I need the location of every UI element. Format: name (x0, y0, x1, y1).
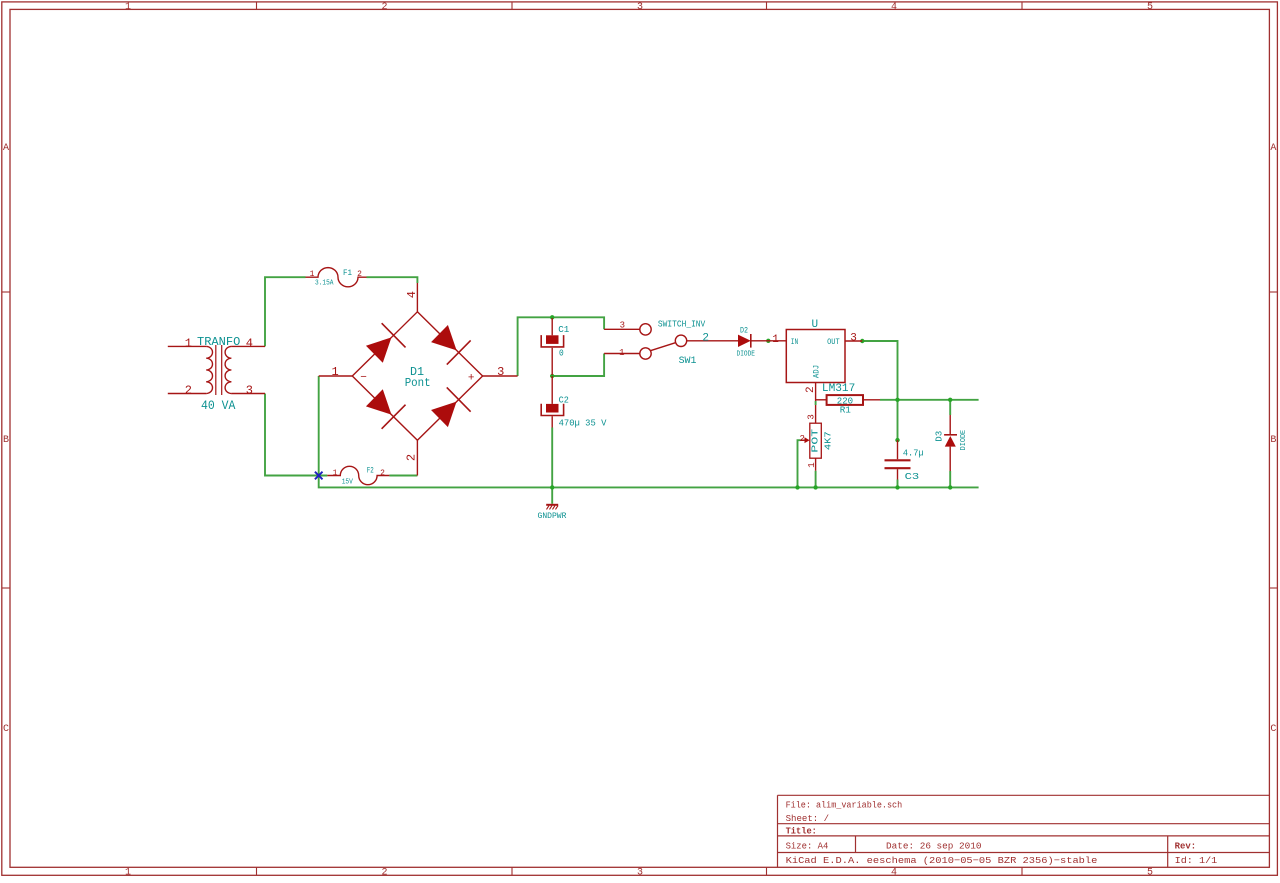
svg-text:C1: C1 (558, 324, 569, 335)
svg-text:3: 3 (637, 2, 643, 13)
svg-text:2: 2 (357, 270, 362, 279)
svg-text:1: 1 (185, 336, 192, 350)
svg-text:2: 2 (381, 2, 387, 13)
svg-text:+: + (468, 373, 475, 385)
svg-text:1: 1 (125, 2, 131, 13)
svg-text:A: A (1270, 143, 1276, 154)
svg-text:B: B (3, 435, 9, 446)
svg-text:C: C (3, 724, 9, 735)
svg-text:2: 2 (380, 469, 385, 478)
svg-text:5: 5 (1147, 2, 1153, 13)
svg-text:0: 0 (559, 348, 564, 359)
svg-text:TRANFO: TRANFO (197, 335, 240, 349)
svg-text:POT: POT (809, 428, 820, 452)
svg-text:4K7: 4K7 (822, 431, 833, 450)
svg-text:Id: 1/1: Id: 1/1 (1175, 855, 1218, 866)
svg-text:3: 3 (807, 414, 817, 419)
svg-text:LM317: LM317 (822, 383, 855, 395)
svg-text:IN: IN (791, 337, 798, 347)
svg-text:5: 5 (1147, 868, 1153, 878)
svg-text:4: 4 (246, 336, 253, 350)
svg-text:3: 3 (497, 365, 504, 379)
svg-text:SWITCH_INV: SWITCH_INV (658, 319, 706, 330)
svg-text:D3: D3 (935, 431, 945, 442)
svg-text:4: 4 (891, 2, 897, 13)
svg-text:Date: 26 sep 2010: Date: 26 sep 2010 (886, 841, 982, 852)
svg-text:1: 1 (772, 334, 779, 346)
svg-text:A: A (3, 143, 9, 154)
svg-text:1: 1 (333, 469, 338, 478)
svg-text:KiCad E.D.A. eeschema (2010−0: KiCad E.D.A. eeschema (2010−05−05 BZR 23… (786, 855, 1098, 866)
svg-text:470µ 35 V: 470µ 35 V (559, 417, 607, 428)
svg-text:4: 4 (405, 291, 419, 298)
svg-text:DIODE: DIODE (737, 350, 756, 358)
svg-text:Pont: Pont (405, 376, 431, 390)
svg-text:B: B (1270, 435, 1276, 446)
svg-text:OUT: OUT (827, 337, 840, 347)
svg-text:R1: R1 (840, 404, 851, 415)
svg-text:2: 2 (405, 454, 419, 461)
svg-text:1: 1 (125, 868, 131, 878)
svg-text:40 VA: 40 VA (201, 399, 236, 413)
svg-text:1: 1 (310, 270, 315, 279)
svg-text:2: 2 (799, 434, 804, 444)
svg-text:3: 3 (246, 384, 253, 398)
svg-text:Rev:: Rev: (1175, 841, 1197, 852)
svg-text:C2: C2 (559, 395, 569, 406)
svg-text:SW1: SW1 (679, 356, 697, 367)
svg-text:Title:: Title: (786, 825, 817, 836)
svg-text:2: 2 (185, 384, 192, 398)
svg-text:3: 3 (850, 332, 857, 344)
svg-text:4: 4 (891, 868, 897, 878)
svg-text:2: 2 (805, 386, 817, 393)
svg-text:3.15A: 3.15A (315, 279, 334, 287)
svg-text:D2: D2 (740, 327, 748, 336)
svg-text:2: 2 (381, 868, 387, 878)
svg-text:ADJ: ADJ (812, 365, 822, 378)
svg-text:1: 1 (619, 348, 624, 358)
svg-text:Sheet: /: Sheet: / (786, 813, 830, 824)
svg-text:−: − (360, 372, 367, 384)
svg-text:DIODE: DIODE (960, 430, 968, 451)
svg-text:15V: 15V (342, 478, 354, 486)
svg-text:3: 3 (620, 320, 625, 330)
svg-text:2: 2 (702, 333, 709, 345)
svg-text:1: 1 (807, 462, 817, 467)
svg-text:GNDPWR: GNDPWR (538, 512, 567, 521)
svg-text:C3: C3 (905, 471, 920, 482)
svg-text:F1: F1 (343, 269, 352, 278)
svg-text:1: 1 (331, 365, 338, 379)
svg-text:C: C (1270, 724, 1276, 735)
svg-text:File: alim_variable.sch: File: alim_variable.sch (786, 800, 903, 811)
svg-text:4.7µ: 4.7µ (903, 448, 924, 459)
svg-text:Size: A4: Size: A4 (786, 841, 829, 852)
svg-text:U: U (812, 319, 819, 331)
svg-text:F2: F2 (367, 467, 374, 476)
svg-text:3: 3 (637, 868, 643, 878)
